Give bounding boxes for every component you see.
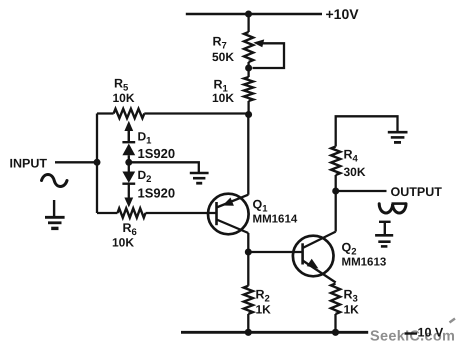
ground (diode midpoint): [190, 172, 209, 175]
load coil symbol: [379, 204, 406, 213]
R6 wiper arrow: [124, 198, 133, 208]
node: R4 / OUTPUT / Q2 collector: [332, 188, 339, 195]
svg-text:10K: 10K: [112, 236, 134, 250]
svg-text:OUTPUT: OUTPUT: [391, 185, 443, 199]
node: R2/rail: [245, 329, 252, 336]
svg-text:1K: 1K: [344, 303, 360, 317]
svg-text:30K: 30K: [344, 165, 366, 179]
OUTPUT wire: [336, 190, 387, 192]
svg-text:10K: 10K: [212, 91, 234, 105]
svg-text:10 V: 10 V: [418, 325, 444, 339]
resistor R7 50K (pot): [244, 32, 253, 62]
ground (input): [53, 200, 55, 217]
svg-text:10K: 10K: [113, 91, 135, 105]
transistor Q1 MM1614 (PNP): [208, 194, 249, 235]
transistor Q2 MM1613 (NPN): [293, 236, 334, 277]
node: Q1 collector / R2 / Q2 base: [245, 249, 252, 256]
wire: node to Q2 base: [248, 251, 302, 253]
svg-text:+10V: +10V: [326, 6, 360, 22]
node: R1/R5/Q1 emitter: [245, 111, 252, 118]
AC source symbol: [42, 175, 68, 187]
node: D1/D2 midpoint: [125, 159, 132, 166]
+10V supply rail: [186, 13, 322, 16]
wire: Q2 collector up: [335, 191, 337, 232]
svg-text:MM1614: MM1614: [253, 214, 298, 226]
svg-text:1K: 1K: [256, 303, 272, 317]
node: rail / R7 column: [245, 11, 252, 18]
ground (top right): [388, 131, 408, 134]
wire: Q1 emitter up to node: [247, 115, 249, 195]
label -10V: [405, 332, 418, 334]
wire R1 to node: [247, 101, 249, 115]
svg-text:1S920: 1S920: [138, 146, 176, 161]
diode D2 1S920: [128, 162, 130, 172]
wire: Q1 collector down: [247, 233, 249, 252]
wire: left branch vertical: [96, 114, 98, 214]
wire: rail to R7: [247, 14, 249, 32]
resistor R6 10K: [97, 212, 118, 214]
svg-text:MM1613: MM1613: [342, 257, 387, 269]
R5 wiper arrow: [128, 128, 130, 142]
resistor R3 1K: [331, 284, 340, 315]
diode D1 1S920: [128, 131, 130, 143]
node: R3/rail: [332, 329, 339, 336]
wire: midpoint to ground: [129, 162, 199, 172]
svg-text:50K: 50K: [212, 50, 234, 64]
svg-text:1S920: 1S920: [138, 185, 176, 200]
node: input junction: [94, 159, 101, 166]
svg-text:INPUT: INPUT: [10, 156, 48, 170]
wire R7-R1: [247, 62, 249, 77]
node: R7 wiper tie: [245, 65, 252, 72]
resistor R5 10K: [97, 112, 114, 114]
ground (output): [379, 221, 391, 223]
resistor R2 1K: [247, 252, 249, 286]
resistor R4 30K: [335, 175, 337, 191]
INPUT wire: [55, 161, 97, 163]
-10V supply rail: [181, 331, 368, 334]
resistor R1 10K: [244, 77, 253, 101]
